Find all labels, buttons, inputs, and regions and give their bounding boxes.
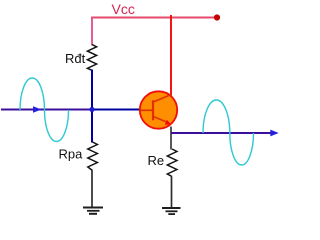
transistor Q1 emitter lead [153,116,169,123]
ground right [162,208,181,214]
wire Re to ground [171,177,173,208]
resistor Rdt [87,45,96,71]
wire base [92,109,141,111]
ground left [83,208,103,214]
transistor Q1 emitter arrow [165,120,171,125]
arrow output [270,130,278,137]
node base junction dot [89,107,94,112]
resistor Rpa [88,142,98,171]
svg-text:Rđt: Rđt [65,51,86,66]
wire Rpa to ground [91,171,93,208]
wire emitter down [170,127,172,150]
waveform input sine [20,78,69,142]
transistor Q1 body [140,91,177,128]
transistor Q1 base lead [140,109,153,111]
wire collector drop from rail [170,15,172,96]
wire Rdt to junction to Rpa [91,70,93,143]
node Vcc terminal dot [214,14,220,20]
wire Vcc rail [91,17,218,19]
transistor Q1 base bar [152,100,154,120]
svg-text:Vcc: Vcc [112,1,135,17]
wire output line [171,132,272,134]
wire input line [1,109,92,111]
wire Vcc drop to Rdt [91,17,93,46]
waveform output sine [203,100,254,165]
svg-text:Rpa: Rpa [59,147,84,162]
svg-text:Re: Re [148,153,165,168]
transistor Q1 collector lead [153,94,172,102]
arrow input [33,106,42,113]
resistor Re [167,149,177,177]
